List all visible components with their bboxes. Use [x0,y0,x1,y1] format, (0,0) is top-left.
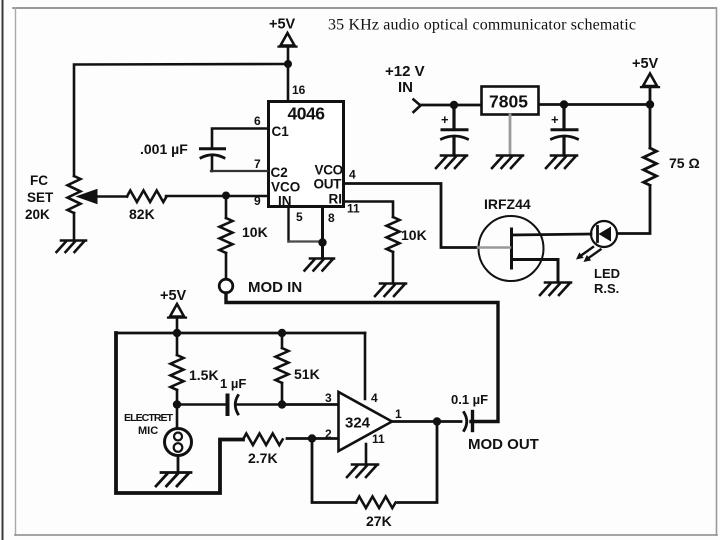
wire LED to MOSFET drain [512,234,591,235]
svg-text:8: 8 [328,211,335,225]
ground (pot) [57,241,87,253]
svg-text:35 KHz audio optical communica: 35 KHz audio optical communicator schema… [328,17,636,34]
wire 10K to ground [392,252,395,283]
wire +5V to 75 ohm [649,87,652,148]
LED light arrows [582,247,601,258]
svg-text:VCO: VCO [315,163,343,178]
svg-text:1: 1 [395,407,402,421]
svg-text:1 µF: 1 µF [220,376,246,391]
svg-text:IRFZ44: IRFZ44 [484,196,531,212]
ground (MOSFET source) [540,283,571,296]
svg-text:VCO: VCO [271,180,300,195]
svg-text:5: 5 [296,210,303,224]
svg-text:2: 2 [325,427,332,441]
LED [591,221,617,247]
svg-text:20K: 20K [25,207,50,222]
wire 27K to output node [398,422,437,503]
ground (pins 5/8) [305,259,335,271]
svg-text:2.7K: 2.7K [248,450,278,466]
node J (51K/pin3) [278,400,286,408]
wire cap to pin 7 [211,157,214,172]
node A (junction at +5V / pin16) [284,60,292,68]
op-amp U2 324 [339,392,393,451]
7805 ground lead [509,115,512,155]
svg-text:+5V: +5V [160,288,187,304]
wire loop left side [116,333,243,493]
wire 82K to VCO IN (pin 9) [166,195,267,198]
output wire pin 1 [392,420,461,423]
ground (op-amp) [347,465,378,478]
svg-text:27K: 27K [366,513,392,529]
wire pot to ground [73,213,76,240]
wire +5V to node A [287,47,290,64]
wire pin 5 to pin 8 [287,208,289,242]
svg-text:11: 11 [347,202,360,216]
node D (input cap) [450,101,458,109]
wire RI (pin 11) to 10K [345,202,393,218]
power symbol +5V (top, over 4046) [269,17,297,47]
resistor 75 ohm [644,148,657,185]
svg-text:82K: 82K [129,206,155,222]
node L (output/feedback) [433,417,441,425]
svg-text:MIC: MIC [138,425,158,437]
IC U1 4046 [269,102,344,207]
ground (C_in) [436,156,467,169]
ground (RI 10K) [375,284,406,297]
svg-text:4: 4 [371,391,378,405]
wire pin 8 to ground [321,208,324,258]
node B (82K / 10K / VCO IN) [222,192,230,200]
svg-text:75 Ω: 75 Ω [669,155,700,171]
svg-text:SET: SET [27,190,54,205]
svg-text:+12 V: +12 V [385,63,425,80]
svg-text:.001 µF: .001 µF [140,141,188,157]
svg-text:9: 9 [254,194,261,208]
svg-text:3: 3 [325,391,332,405]
MOD IN terminal [219,279,233,293]
svg-text:16: 16 [292,83,306,97]
wire node A to pot (top rail left) [74,64,288,176]
svg-text:IN: IN [398,79,413,96]
wire +12V to 7805 [421,104,482,107]
ground (mic) [156,473,191,487]
pin 11 wire (op-amp V-) [365,444,368,464]
svg-text:C1: C1 [272,124,290,139]
svg-text:6: 6 [254,114,261,128]
svg-text:OUT: OUT [314,177,343,192]
svg-text:4: 4 [349,168,356,182]
svg-text:+: + [441,112,449,127]
ground (7805) [492,156,523,169]
resistor 2.7K [243,434,283,446]
svg-text:LED: LED [594,266,620,281]
svg-text:7805: 7805 [489,92,528,112]
svg-text:0.1 µF: 0.1 µF [451,392,488,407]
svg-text:MOD IN: MOD IN [248,279,302,296]
wire node J to op-amp pin 3 [282,403,338,406]
resistor 51K [276,333,289,405]
capacitor C_in (+) [441,105,468,155]
node E (output cap) [560,100,568,108]
node H (rail/51K) [278,329,286,337]
svg-text:ELECTRET: ELECTRET [124,412,174,424]
wire VCO OUT (pin 4) to MOSFET gate [345,184,478,248]
ground (C_out) [546,156,577,169]
svg-text:MOD OUT: MOD OUT [468,436,539,453]
wire 75 ohm to LED [617,186,650,234]
input connector arrow [414,100,421,113]
svg-text:11: 11 [372,432,385,446]
node F (+5V right) [646,100,654,108]
svg-text:+5V: +5V [632,56,659,72]
svg-text:+: + [551,112,559,127]
power symbol +5V (right) [632,56,659,87]
power symbol +5V (mic amp) [160,288,187,318]
svg-text:324: 324 [345,415,371,432]
wire MOD IN to 0.1uF (right riser) [226,293,498,422]
capacitor C_out (+) [551,105,578,155]
node I (1.5K/mic/1uF) [173,400,181,408]
svg-text:FC: FC [30,173,48,188]
feedback wire to 27K [312,439,356,503]
capacitor .001 uF [201,149,225,158]
resistor 27K [356,497,396,509]
svg-text:RI: RI [329,192,343,207]
wire node A to pin 16 [287,64,290,101]
wire +5V to rail [176,317,179,333]
svg-text:1.5K: 1.5K [189,367,219,383]
wire pin 6 to cap C1 [212,129,267,149]
svg-text:R.S.: R.S. [594,281,619,296]
regulator 7805 [482,87,539,115]
resistor 10K (RI) [387,217,400,252]
resistor 10K (VCO IN pull-down) [220,196,233,280]
node C (pins 5/8) [318,238,326,246]
svg-text:+5V: +5V [269,17,296,33]
resistor 82K [127,191,167,203]
mic amp +5V rail [116,332,365,335]
wire 2.7K to pin 2 [287,437,338,440]
resistor 1.5K [171,333,184,405]
potentiometer FC SET 20K [68,176,128,213]
svg-text:10K: 10K [401,227,427,243]
svg-text:C2: C2 [271,165,288,180]
wire 7805 out to +5V rail [539,103,650,106]
node G (rail/1.5K) [173,329,181,337]
node K (pin2/feedback) [308,434,316,442]
svg-text:IN: IN [278,194,292,209]
svg-text:4046: 4046 [288,104,326,124]
svg-text:51K: 51K [294,366,320,382]
pin 4 wire (op-amp V+) [364,333,367,399]
svg-text:10K: 10K [242,224,268,240]
svg-text:7: 7 [254,157,261,171]
